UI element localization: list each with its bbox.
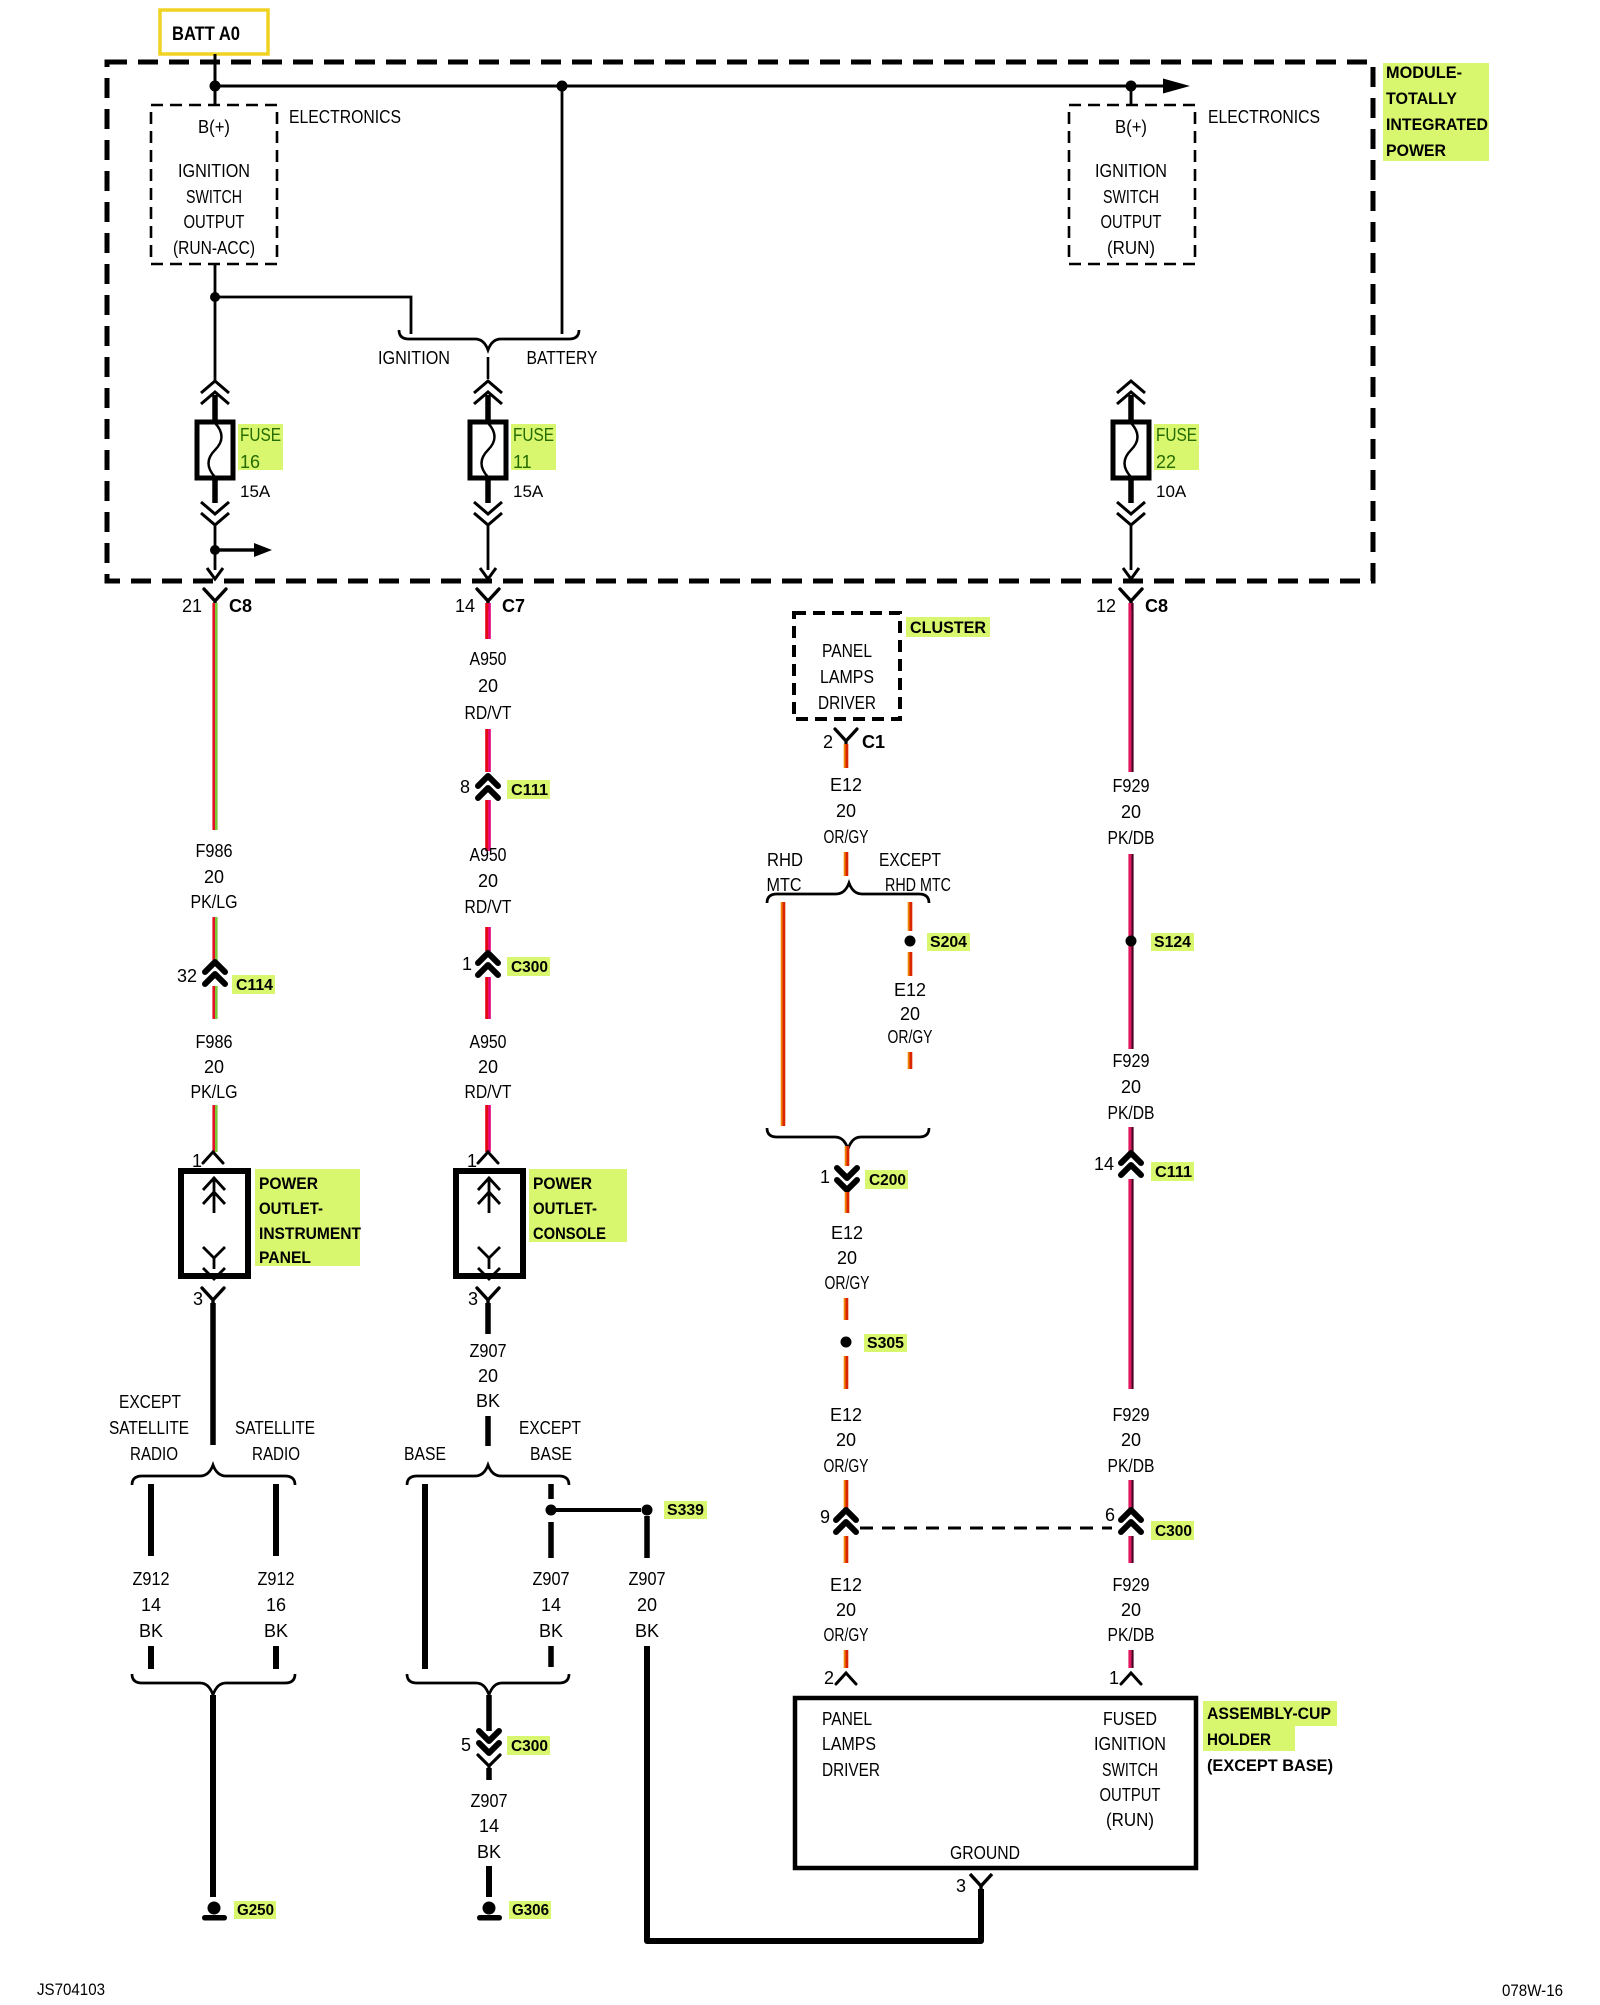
- svg-text:OR/GY: OR/GY: [825, 1273, 870, 1293]
- svg-text:OR/GY: OR/GY: [824, 827, 869, 847]
- svg-text:FUSE: FUSE: [240, 425, 281, 445]
- svg-text:20: 20: [478, 1366, 498, 1386]
- svg-text:IGNITION: IGNITION: [178, 161, 250, 181]
- svg-text:20: 20: [637, 1595, 657, 1615]
- svg-text:PANEL: PANEL: [822, 641, 872, 661]
- svg-text:20: 20: [836, 801, 856, 821]
- svg-text:DRIVER: DRIVER: [822, 1760, 880, 1780]
- svg-text:C7: C7: [502, 596, 525, 616]
- brace cluster merge: [767, 1128, 929, 1149]
- svg-text:BASE: BASE: [404, 1444, 446, 1464]
- arrow tap to other circuits: [215, 548, 257, 551]
- svg-text:5: 5: [461, 1735, 471, 1755]
- svg-text:Z912: Z912: [133, 1569, 170, 1589]
- wire except RHD MTC branch seg1: [908, 902, 910, 931]
- wire F929 20 PK/DB segment 5: [1128, 1480, 1131, 1509]
- svg-text:PK/LG: PK/LG: [191, 892, 238, 912]
- svg-text:OUTPUT: OUTPUT: [184, 212, 245, 232]
- wire base branch: [422, 1484, 428, 1669]
- connector C200 pin 1: [837, 1168, 857, 1178]
- svg-text:ELECTRONICS: ELECTRONICS: [289, 107, 401, 127]
- svg-text:BASE: BASE: [530, 1444, 572, 1464]
- svg-text:SWITCH: SWITCH: [186, 187, 242, 207]
- svg-text:14: 14: [455, 596, 475, 616]
- svg-text:2: 2: [823, 732, 833, 752]
- ground G250: [208, 1902, 221, 1915]
- svg-text:RHD MTC: RHD MTC: [885, 875, 951, 895]
- pin 3 power outlet console: [477, 1288, 499, 1306]
- svg-text:20: 20: [1121, 802, 1141, 822]
- svg-text:RD/VT: RD/VT: [465, 1082, 512, 1102]
- ground G306: [483, 1902, 496, 1915]
- wire except-base branch seg 1: [548, 1484, 554, 1499]
- wire E12 20 OR/GY stub: [844, 744, 846, 768]
- fuse F16 15A: [201, 381, 229, 393]
- svg-text:E12: E12: [830, 1575, 862, 1595]
- svg-text:SWITCH: SWITCH: [1103, 187, 1159, 207]
- svg-text:F929: F929: [1113, 776, 1150, 796]
- svg-text:F986: F986: [196, 1032, 233, 1052]
- svg-text:3: 3: [956, 1876, 966, 1896]
- svg-text:PK/DB: PK/DB: [1108, 1625, 1155, 1645]
- svg-text:1: 1: [820, 1167, 830, 1187]
- svg-text:OR/GY: OR/GY: [824, 1456, 869, 1476]
- svg-text:A950: A950: [470, 649, 507, 669]
- wire A950 20 RD/VT segment 5: [485, 977, 488, 1019]
- svg-text:20: 20: [478, 676, 498, 696]
- wire Z912 14 BK branch: [148, 1484, 154, 1556]
- wire Z912 stub right: [273, 1646, 279, 1669]
- svg-text:S339: S339: [667, 1502, 704, 1519]
- svg-text:Z907: Z907: [533, 1569, 570, 1589]
- pin 1 power outlet IP: [203, 1152, 223, 1163]
- connector C111 pin 14: [1121, 1153, 1141, 1163]
- wire C300 inline dashed link: [860, 1527, 1112, 1530]
- component ASSEMBLY-CUP HOLDER box: [795, 1698, 1196, 1868]
- svg-text:12: 12: [1096, 596, 1116, 616]
- wire E12 seg to panel lamps driver: [844, 1650, 846, 1668]
- svg-text:B(+): B(+): [1115, 117, 1147, 137]
- connector C300 pin 6: [1121, 1510, 1141, 1520]
- svg-text:OUTPUT: OUTPUT: [1100, 1785, 1161, 1805]
- pin 1 cup holder: [1121, 1673, 1141, 1684]
- brace satellite-radio split: [132, 1465, 295, 1485]
- svg-text:15A: 15A: [513, 482, 544, 501]
- svg-text:8: 8: [460, 777, 470, 797]
- svg-text:20: 20: [204, 1057, 224, 1077]
- splice S204: [905, 936, 916, 947]
- pin 1 power outlet console: [478, 1152, 498, 1163]
- junction dot battery tap: [557, 81, 568, 92]
- svg-text:14: 14: [141, 1595, 161, 1615]
- component POWER OUTLET-INSTRUMENT PANEL: [181, 1171, 248, 1276]
- connector C7 pin 14: [477, 589, 499, 608]
- svg-text:FUSE: FUSE: [1156, 425, 1197, 445]
- svg-text:20: 20: [478, 1057, 498, 1077]
- svg-text:10A: 10A: [1156, 482, 1187, 501]
- svg-text:2: 2: [824, 1668, 834, 1688]
- svg-text:INSTRUMENT: INSTRUMENT: [259, 1224, 362, 1243]
- svg-text:LAMPS: LAMPS: [820, 667, 874, 687]
- svg-text:EXCEPT: EXCEPT: [519, 1418, 581, 1438]
- label POWER OUTLET-CONSOLE: [529, 1169, 627, 1242]
- svg-text:MTC: MTC: [767, 875, 802, 895]
- svg-text:A950: A950: [470, 1032, 507, 1052]
- svg-text:BK: BK: [476, 1391, 500, 1411]
- svg-text:BK: BK: [264, 1621, 288, 1641]
- junction dot run-acc tap: [210, 292, 220, 302]
- wire F929 20 PK/DB segment 2: [1128, 854, 1131, 1049]
- svg-text:SATELLITE: SATELLITE: [235, 1418, 315, 1438]
- brace ignition/battery merge: [399, 330, 579, 350]
- svg-text:PK/DB: PK/DB: [1108, 1103, 1155, 1123]
- junction dot at B(+) left: [210, 81, 221, 92]
- svg-text:POWER: POWER: [1386, 141, 1446, 160]
- wire Z912 black from outlet: [210, 1303, 216, 1445]
- svg-text:14: 14: [541, 1595, 561, 1615]
- svg-text:16: 16: [266, 1595, 286, 1615]
- connector C8 pin 12: [1120, 589, 1142, 608]
- junction dot at B(+) right: [1126, 81, 1137, 92]
- svg-text:20: 20: [836, 1600, 856, 1620]
- svg-text:CONSOLE: CONSOLE: [533, 1224, 606, 1243]
- wire brace stem: [487, 357, 490, 379]
- wire brace stem to C200: [845, 1146, 847, 1166]
- svg-text:C300: C300: [511, 1738, 548, 1755]
- svg-text:22: 22: [1156, 452, 1176, 472]
- wire top bus: [214, 85, 1176, 88]
- svg-text:20: 20: [1121, 1077, 1141, 1097]
- wire A950 20 RD/VT segment 2: [485, 729, 488, 772]
- svg-text:21: 21: [182, 596, 202, 616]
- wire except-base branch seg 2: [548, 1522, 554, 1558]
- wire E12 seg: [845, 1192, 847, 1213]
- svg-text:E12: E12: [831, 1223, 863, 1243]
- svg-text:Z907: Z907: [470, 1341, 507, 1361]
- connector C1 pin 2: [835, 729, 857, 748]
- wire F929 20 PK/DB segment 6: [1128, 1536, 1131, 1563]
- svg-text:POWER: POWER: [533, 1174, 592, 1193]
- wire S339 to cup holder ground: [644, 1516, 650, 1558]
- svg-text:C8: C8: [1145, 596, 1168, 616]
- wire except RHD MTC branch seg2: [908, 952, 910, 976]
- wire BATT A0 feed stub: [214, 54, 217, 106]
- node BATT A0: [160, 10, 268, 54]
- svg-text:078W-16: 078W-16: [1502, 1981, 1563, 2000]
- svg-text:PANEL: PANEL: [259, 1248, 311, 1267]
- svg-text:C300: C300: [511, 959, 548, 976]
- wire A950 20 RD/VT segment 6: [485, 1105, 488, 1152]
- label CLUSTER: [906, 617, 990, 637]
- label ASSEMBLY-CUP HOLDER: [1203, 1701, 1337, 1726]
- svg-text:BK: BK: [139, 1621, 163, 1641]
- svg-text:PANEL: PANEL: [822, 1709, 872, 1729]
- svg-text:S305: S305: [867, 1335, 904, 1352]
- svg-text:PK/DB: PK/DB: [1108, 828, 1155, 848]
- svg-text:C1: C1: [862, 732, 885, 752]
- svg-text:POWER: POWER: [259, 1174, 318, 1193]
- svg-text:SATELLITE: SATELLITE: [109, 1418, 189, 1438]
- wire Z912 stub left: [148, 1646, 154, 1669]
- connector C111 pin 8: [478, 776, 498, 786]
- wire except RHD MTC branch seg3: [908, 1052, 910, 1069]
- pin 3 ground output: [970, 1874, 992, 1893]
- svg-text:S124: S124: [1154, 934, 1191, 951]
- label MODULE-TOTALLY INTEGRATED POWER: [1383, 63, 1489, 161]
- wire E12 dashed seg2: [844, 1356, 846, 1389]
- svg-text:OR/GY: OR/GY: [824, 1625, 869, 1645]
- fuse F22 10A: [1117, 381, 1145, 393]
- svg-text:CLUSTER: CLUSTER: [910, 618, 986, 637]
- connector C300 pin 5: [479, 1731, 499, 1741]
- svg-text:20: 20: [478, 871, 498, 891]
- brace base split: [407, 1465, 569, 1485]
- wire splice jumper: [556, 1508, 641, 1512]
- svg-text:20: 20: [836, 1430, 856, 1450]
- svg-text:B(+): B(+): [198, 117, 230, 137]
- svg-text:C114: C114: [236, 977, 273, 994]
- brace ground merge console: [407, 1674, 569, 1695]
- brace ground merge left: [132, 1674, 295, 1695]
- wire Z912 to G250: [210, 1695, 216, 1897]
- svg-text:(RUN): (RUN): [1107, 238, 1155, 258]
- svg-text:RADIO: RADIO: [130, 1444, 178, 1464]
- svg-text:E12: E12: [830, 775, 862, 795]
- wire E12 dashed seg: [844, 1298, 846, 1320]
- svg-text:PK/LG: PK/LG: [191, 1082, 238, 1102]
- svg-text:SWITCH: SWITCH: [1102, 1760, 1158, 1780]
- wire Z912 16 BK branch: [273, 1484, 279, 1556]
- svg-text:20: 20: [900, 1004, 920, 1024]
- svg-text:(EXCEPT BASE): (EXCEPT BASE): [1207, 1756, 1333, 1775]
- svg-text:ASSEMBLY-CUP: ASSEMBLY-CUP: [1207, 1704, 1331, 1723]
- pin B(+) ignition switch output (RUN-ACC) dashed box: [151, 105, 277, 264]
- svg-text:IGNITION: IGNITION: [1094, 1734, 1166, 1754]
- wire battery drop: [561, 86, 564, 334]
- module TIPM (Totally Integrated Power Module) dashed boundary: [107, 62, 1373, 581]
- wire F929 20 PK/DB segment 4: [1128, 1179, 1131, 1389]
- wire E12 seg: [844, 1536, 846, 1563]
- svg-text:RADIO: RADIO: [252, 1444, 300, 1464]
- pin 3 power outlet IP: [202, 1288, 224, 1306]
- splice S305: [841, 1337, 852, 1348]
- svg-text:C300: C300: [1155, 1523, 1192, 1540]
- svg-text:Z907: Z907: [629, 1569, 666, 1589]
- svg-text:IGNITION: IGNITION: [1095, 161, 1167, 181]
- fuse F11 15A: [474, 381, 502, 393]
- wire A950 20 RD/VT segment 4: [485, 927, 488, 951]
- svg-text:OUTPUT: OUTPUT: [1101, 212, 1162, 232]
- svg-text:BK: BK: [477, 1842, 501, 1862]
- pin B(+) ignition switch output (RUN) dashed box: [1069, 105, 1195, 264]
- wire RHD MTC branch: [781, 902, 783, 1126]
- wire tap to ignition brace: [215, 297, 411, 334]
- svg-text:(RUN-ACC): (RUN-ACC): [173, 238, 255, 258]
- splice S339 left dot: [546, 1505, 557, 1516]
- svg-text:G250: G250: [237, 1902, 274, 1919]
- svg-text:BK: BK: [539, 1621, 563, 1641]
- svg-text:OUTLET-: OUTLET-: [533, 1199, 597, 1218]
- svg-text:14: 14: [479, 1816, 499, 1836]
- wire F986 20 PK/LG segment 4: [212, 1105, 215, 1152]
- connector C8 pin 21: [204, 589, 226, 608]
- pin 2 cup holder: [836, 1673, 856, 1684]
- svg-text:Z907: Z907: [471, 1791, 508, 1811]
- svg-text:E12: E12: [894, 980, 926, 1000]
- svg-text:20: 20: [837, 1248, 857, 1268]
- svg-text:RHD: RHD: [767, 850, 803, 870]
- svg-text:F929: F929: [1113, 1575, 1150, 1595]
- svg-text:3: 3: [193, 1289, 203, 1309]
- component POWER OUTLET-CONSOLE: [456, 1171, 523, 1276]
- svg-text:HOLDER: HOLDER: [1207, 1730, 1271, 1749]
- svg-text:6: 6: [1105, 1505, 1115, 1525]
- wire F929 20 PK/DB segment 3: [1128, 1127, 1131, 1152]
- svg-text:LAMPS: LAMPS: [822, 1734, 876, 1754]
- svg-text:16: 16: [240, 452, 260, 472]
- wire E12 seg: [844, 1480, 846, 1509]
- svg-text:20: 20: [1121, 1600, 1141, 1620]
- svg-text:ELECTRONICS: ELECTRONICS: [1208, 107, 1320, 127]
- svg-text:MODULE-: MODULE-: [1386, 63, 1462, 82]
- svg-text:RD/VT: RD/VT: [465, 897, 512, 917]
- wire E12 dashed piece: [844, 852, 846, 876]
- svg-text:F929: F929: [1113, 1405, 1150, 1425]
- wire Z907 dashed stub: [485, 1416, 491, 1446]
- svg-text:BK: BK: [635, 1621, 659, 1641]
- svg-text:C111: C111: [1155, 1164, 1192, 1181]
- svg-text:11: 11: [513, 452, 532, 472]
- svg-text:INTEGRATED: INTEGRATED: [1386, 115, 1488, 134]
- svg-text:G306: G306: [512, 1902, 549, 1919]
- svg-text:(RUN): (RUN): [1106, 1810, 1154, 1830]
- svg-text:Z912: Z912: [258, 1569, 295, 1589]
- wire F986 20 PK/LG segment 1: [212, 603, 215, 830]
- arrow bus continuation: [1163, 79, 1190, 94]
- wire stub into right B(+): [1130, 86, 1133, 105]
- svg-text:OUTLET-: OUTLET-: [259, 1199, 323, 1218]
- svg-text:C8: C8: [229, 596, 252, 616]
- svg-text:EXCEPT: EXCEPT: [879, 850, 941, 870]
- svg-text:PK/DB: PK/DB: [1108, 1456, 1155, 1476]
- svg-text:3: 3: [468, 1289, 478, 1309]
- svg-text:A950: A950: [470, 845, 507, 865]
- wire Z907 to G306: [486, 1866, 492, 1897]
- svg-text:EXCEPT: EXCEPT: [119, 1392, 181, 1412]
- wire F986 20 PK/LG segment 3: [212, 986, 215, 1019]
- svg-text:BATT A0: BATT A0: [172, 24, 240, 45]
- svg-text:F986: F986: [196, 841, 233, 861]
- wire F929 20 PK/DB segment 7: [1128, 1650, 1131, 1668]
- svg-text:15A: 15A: [240, 482, 271, 501]
- svg-text:20: 20: [204, 867, 224, 887]
- wire run-acc output drop: [214, 264, 217, 380]
- svg-text:TOTALLY: TOTALLY: [1386, 89, 1458, 108]
- svg-text:F929: F929: [1113, 1051, 1150, 1071]
- svg-text:RD/VT: RD/VT: [465, 703, 512, 723]
- component CLUSTER dashed box: [794, 613, 900, 719]
- wire A950 20 RD/VT segment 1: [485, 603, 488, 639]
- svg-text:9: 9: [820, 1507, 830, 1527]
- svg-text:GROUND: GROUND: [950, 1843, 1020, 1863]
- label POWER OUTLET-INSTRUMENT PANEL: [255, 1169, 360, 1266]
- svg-text:FUSE: FUSE: [513, 425, 554, 445]
- svg-text:S204: S204: [930, 934, 967, 951]
- svg-text:20: 20: [1121, 1430, 1141, 1450]
- svg-text:C111: C111: [511, 782, 548, 799]
- svg-text:DRIVER: DRIVER: [818, 693, 876, 713]
- splice S339 dot: [642, 1505, 653, 1516]
- svg-text:1: 1: [462, 954, 472, 974]
- wire A950 20 RD/VT segment 3: [485, 800, 488, 851]
- connector C300 pin 1: [478, 953, 498, 963]
- connector C114 pin 32: [205, 962, 225, 972]
- wire F986 20 PK/LG segment 2: [212, 917, 215, 960]
- connector C300 pin 9: [836, 1510, 856, 1520]
- svg-text:BATTERY: BATTERY: [527, 348, 598, 368]
- svg-text:14: 14: [1094, 1154, 1114, 1174]
- svg-text:C200: C200: [869, 1172, 906, 1189]
- svg-text:FUSED: FUSED: [1103, 1709, 1157, 1729]
- wire F929 20 PK/DB segment 1: [1128, 603, 1131, 772]
- svg-text:E12: E12: [830, 1405, 862, 1425]
- svg-text:1: 1: [1109, 1668, 1119, 1688]
- svg-text:32: 32: [177, 966, 197, 986]
- wire Z907 20 BK stub: [485, 1303, 491, 1334]
- svg-text:OR/GY: OR/GY: [888, 1027, 933, 1047]
- splice S124: [1126, 936, 1137, 947]
- svg-text:JS704103: JS704103: [37, 1980, 105, 1999]
- svg-text:IGNITION: IGNITION: [378, 348, 450, 368]
- junction dot below fuse 16: [210, 545, 220, 555]
- brace RHD-MTC split: [767, 883, 929, 903]
- wire except-base branch seg 3: [548, 1646, 554, 1667]
- wire console ground stem: [486, 1695, 492, 1731]
